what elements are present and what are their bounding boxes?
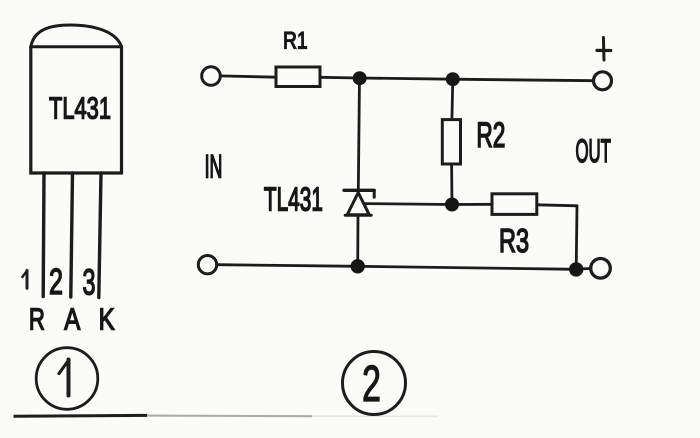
svg-text:OUT: OUT (575, 133, 611, 169)
svg-text:2: 2 (49, 261, 63, 302)
svg-text:2: 2 (362, 355, 381, 412)
svg-text:IN: IN (205, 149, 223, 185)
svg-text:R1: R1 (283, 28, 308, 55)
svg-text:TL431: TL431 (49, 91, 111, 126)
svg-text:R2: R2 (476, 116, 505, 155)
svg-text:TL431: TL431 (264, 182, 323, 219)
svg-text:R3: R3 (499, 222, 529, 259)
svg-text:A: A (64, 301, 80, 336)
svg-text:R: R (29, 301, 45, 336)
svg-text:K: K (99, 301, 115, 336)
svg-text:3: 3 (83, 261, 96, 302)
